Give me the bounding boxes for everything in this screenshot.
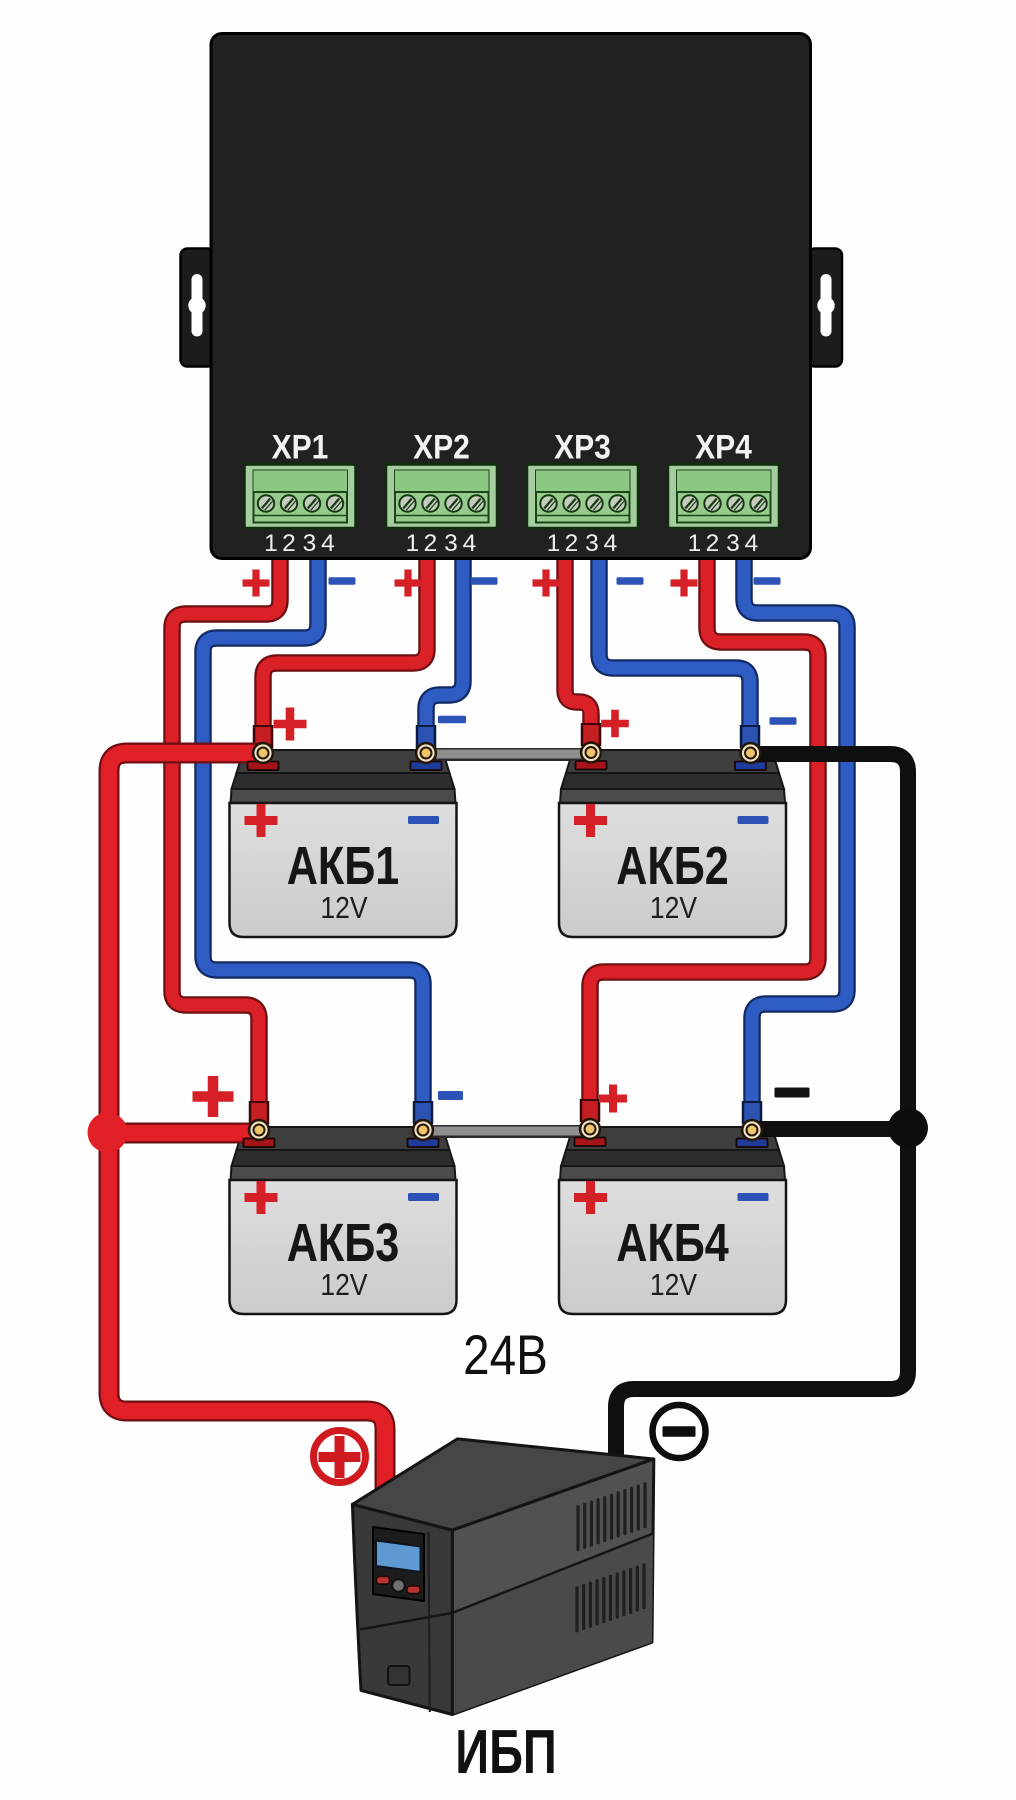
- thick black negative rail: AKB2-/AKB4- to UPS -: [616, 754, 910, 1468]
- wire XP1 pin2 (+) to AKB3 + (red): [172, 548, 280, 1118]
- ferrule at AKB4 +: [580, 1099, 601, 1122]
- ferrule at AKB1 +: [253, 725, 274, 748]
- - mark on АКБ1 body: [408, 816, 439, 824]
- svg-text:24В: 24В: [463, 1324, 548, 1386]
- svg-text:АКБ4: АКБ4: [616, 1214, 729, 1274]
- battery АКБ3 12V: [230, 1127, 457, 1314]
- wire XP2 pin4 (-) to AKB1 - (blue): [426, 548, 463, 742]
- terminal block XP4: [668, 465, 779, 529]
- svg-text:12V: 12V: [650, 1268, 697, 1302]
- svg-text:4: 4: [604, 530, 618, 557]
- wire XP4 pin4 (-) to AKB4 - (blue): [744, 548, 847, 1116]
- UPS unit (IBP): [352, 1439, 653, 1715]
- AKB1 - terminal: [411, 743, 442, 770]
- pin numbers 1 2 3 4 of XP4: [688, 530, 759, 557]
- ferrule at AKB4 -: [742, 1101, 763, 1124]
- wire XP3 pin2 (+) to AKB2 + (red): [565, 548, 591, 740]
- svg-text:4: 4: [463, 530, 477, 557]
- + mark at AKB1 terminal: [274, 708, 307, 741]
- battery АКБ2 12V: [559, 750, 786, 937]
- wire XP2 pin2 (+) to AKB1 + (red): [263, 548, 427, 742]
- svg-text:3: 3: [303, 530, 317, 557]
- + mark at XP4 red lead: [671, 570, 698, 597]
- AKB2 - terminal: [735, 743, 766, 770]
- thick red positive rail: AKB1+/AKB3+ to UPS +: [107, 753, 385, 1512]
- svg-text:АКБ1: АКБ1: [287, 837, 400, 897]
- svg-text:4: 4: [321, 530, 335, 557]
- battery АКБ4 12V: [559, 1127, 786, 1314]
- + mark at AKB3 terminal (rail): [193, 1076, 234, 1117]
- balancer unit mounting ear left: [181, 249, 215, 367]
- AKB3 + terminal: [244, 1120, 275, 1147]
- terminal block XP3: [527, 465, 638, 529]
- circled + at UPS positive input: [314, 1431, 366, 1483]
- svg-text:2: 2: [424, 530, 438, 557]
- balancer unit mounting ear right: [808, 249, 842, 367]
- + mark on АКБ1 body: [245, 804, 278, 837]
- svg-text:АКБ3: АКБ3: [287, 1214, 400, 1274]
- ferrule at AKB2 +: [581, 723, 602, 746]
- ferrule at AKB3 +: [249, 1101, 270, 1124]
- svg-text:3: 3: [726, 530, 740, 557]
- svg-text:12V: 12V: [650, 891, 697, 925]
- svg-text:1: 1: [547, 530, 561, 557]
- AKB3 - terminal: [408, 1120, 439, 1147]
- ferrule at AKB1 -: [416, 725, 437, 748]
- circled - at UPS negative input: [653, 1405, 706, 1458]
- + mark at AKB4 terminal: [599, 1085, 627, 1113]
- svg-text:4: 4: [745, 530, 759, 557]
- svg-text:XP1: XP1: [272, 428, 329, 466]
- svg-text:ИБП: ИБП: [455, 1717, 557, 1787]
- - mark on АКБ3 body: [408, 1193, 439, 1201]
- svg-text:2: 2: [706, 530, 720, 557]
- - mark at AKB1 terminal: [438, 716, 466, 723]
- balancer unit enclosure: [211, 34, 811, 559]
- + mark on АКБ2 body: [574, 804, 607, 837]
- - mark at AKB3 terminal: [438, 1091, 463, 1100]
- svg-text:АКБ2: АКБ2: [616, 837, 729, 897]
- pin numbers 1 2 3 4 of XP2: [406, 530, 477, 557]
- + mark on АКБ4 body: [574, 1181, 607, 1214]
- + mark on АКБ3 body: [245, 1181, 278, 1214]
- ferrule at AKB3 -: [413, 1101, 434, 1124]
- wire XP4 pin2 (+) to AKB4 + (red): [590, 548, 818, 1116]
- wire XP1 pin4 (-) to AKB3 - (blue): [203, 548, 423, 1118]
- battery АКБ1 12V: [230, 750, 457, 937]
- series jumper AKB3- to AKB4+: [423, 1125, 588, 1139]
- wire XP3 pin4 (-) to AKB2 - (blue): [599, 548, 750, 742]
- AKB2 + terminal: [576, 743, 607, 770]
- svg-text:12V: 12V: [320, 1268, 367, 1302]
- svg-text:1: 1: [264, 530, 278, 557]
- junction node on red rail: [88, 1113, 128, 1153]
- pin numbers 1 2 3 4 of XP1: [264, 530, 335, 557]
- terminal block XP2: [386, 465, 497, 529]
- + mark at XP1 red lead: [243, 570, 270, 597]
- svg-text:2: 2: [282, 530, 296, 557]
- svg-text:1: 1: [688, 530, 702, 557]
- svg-text:3: 3: [444, 530, 458, 557]
- series jumper AKB1- to AKB2+: [426, 748, 591, 762]
- svg-text:2: 2: [565, 530, 579, 557]
- - mark at XP4 blue lead: [754, 577, 781, 584]
- svg-text:XP2: XP2: [413, 428, 470, 466]
- AKB1 + terminal: [248, 743, 279, 770]
- - mark at XP1 blue lead: [329, 577, 356, 584]
- + mark at XP2 red lead: [395, 570, 422, 597]
- + mark at XP3 red lead: [533, 570, 560, 597]
- - mark on АКБ4 body: [738, 1193, 769, 1201]
- + mark at AKB2 terminal: [601, 710, 629, 738]
- svg-text:1: 1: [406, 530, 420, 557]
- - mark at AKB2 terminal: [770, 717, 797, 724]
- svg-text:3: 3: [585, 530, 599, 557]
- junction node on black rail: [888, 1108, 928, 1148]
- AKB4 + terminal: [575, 1119, 606, 1146]
- svg-text:12V: 12V: [320, 891, 367, 925]
- svg-text:XP3: XP3: [554, 428, 611, 466]
- svg-text:XP4: XP4: [695, 428, 752, 466]
- - mark on АКБ2 body: [738, 816, 769, 824]
- - mark at XP3 blue lead: [617, 577, 644, 584]
- pin numbers 1 2 3 4 of XP3: [547, 530, 618, 557]
- - mark at XP2 blue lead: [471, 577, 498, 584]
- ferrule at AKB2 -: [740, 725, 761, 748]
- terminal block XP1: [245, 465, 356, 529]
- AKB4 - terminal: [737, 1120, 768, 1147]
- - mark at AKB4 terminal (rail): [775, 1088, 810, 1098]
